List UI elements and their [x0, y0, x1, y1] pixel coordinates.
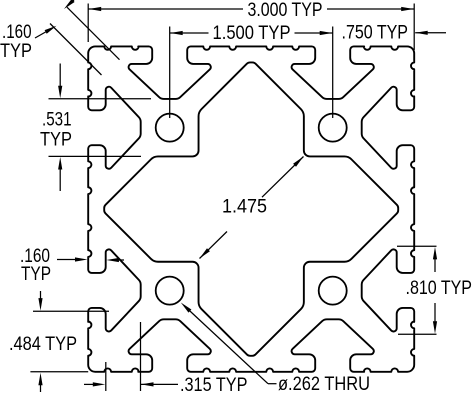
- svg-text:.160: .160: [2, 22, 32, 43]
- dim .484 TYP: [33, 310, 109, 312]
- svg-text:.484 TYP: .484 TYP: [9, 334, 77, 355]
- svg-text:3.000 TYP: 3.000 TYP: [248, 0, 323, 21]
- bore hole: [319, 114, 347, 142]
- dim 1.500 TYP: [169, 27, 171, 119]
- dim 1.475: [200, 232, 228, 259]
- svg-text:TYP: TYP: [0, 41, 32, 62]
- dim .160 TYP corner: [67, 7, 120, 60]
- svg-text:TYP: TYP: [21, 264, 51, 285]
- central star-shaped void: [104, 62, 398, 355]
- bore hole: [156, 114, 184, 142]
- bore hole: [319, 277, 347, 305]
- dim .531 TYP: [49, 98, 152, 100]
- svg-text:1.475: 1.475: [222, 197, 267, 218]
- svg-text:.810 TYP: .810 TYP: [406, 278, 473, 299]
- extrusion outer profile with T-slots: [88, 46, 414, 371]
- svg-text:TYP: TYP: [40, 130, 72, 151]
- dim 3.000 TYP: [87, 4, 89, 43]
- bore hole: [156, 277, 184, 305]
- dim .160 TYP wall: [57, 259, 79, 261]
- svg-text:.531: .531: [42, 110, 72, 131]
- dim .810 TYP: [397, 245, 437, 247]
- svg-text:.750 TYP: .750 TYP: [342, 23, 409, 44]
- svg-text:.315 TYP: .315 TYP: [180, 375, 248, 393]
- dim ø.262 THRU leader: [268, 383, 277, 385]
- svg-text:1.500 TYP: 1.500 TYP: [213, 23, 291, 44]
- svg-text:ø.262 THRU: ø.262 THRU: [278, 374, 370, 393]
- dim .315 TYP: [105, 362, 107, 391]
